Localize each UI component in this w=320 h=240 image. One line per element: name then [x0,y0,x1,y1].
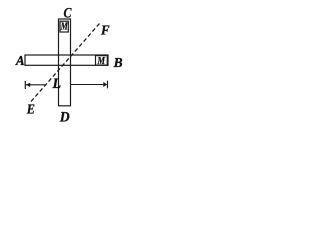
bar AB (horizontal ruler) [25,55,108,65]
dimension line right segment with right arrowhead and tick [71,81,108,89]
bar CD (vertical ruler) [59,19,71,106]
svg-text:M: M [60,21,68,33]
dashed line EF [31,24,100,102]
mass box M (top of vertical bar) [60,21,68,33]
svg-text:C: C [64,6,73,22]
svg-text:A: A [15,54,25,69]
dimension line left segment with tick and left arrowhead [25,81,46,89]
svg-text:D: D [59,110,70,126]
svg-text:F: F [100,24,110,39]
mass box M (right end of horizontal bar) [96,56,108,67]
svg-text:E: E [26,103,35,118]
svg-text:L: L [52,76,62,92]
svg-text:M: M [97,56,106,67]
svg-text:B: B [113,56,123,71]
